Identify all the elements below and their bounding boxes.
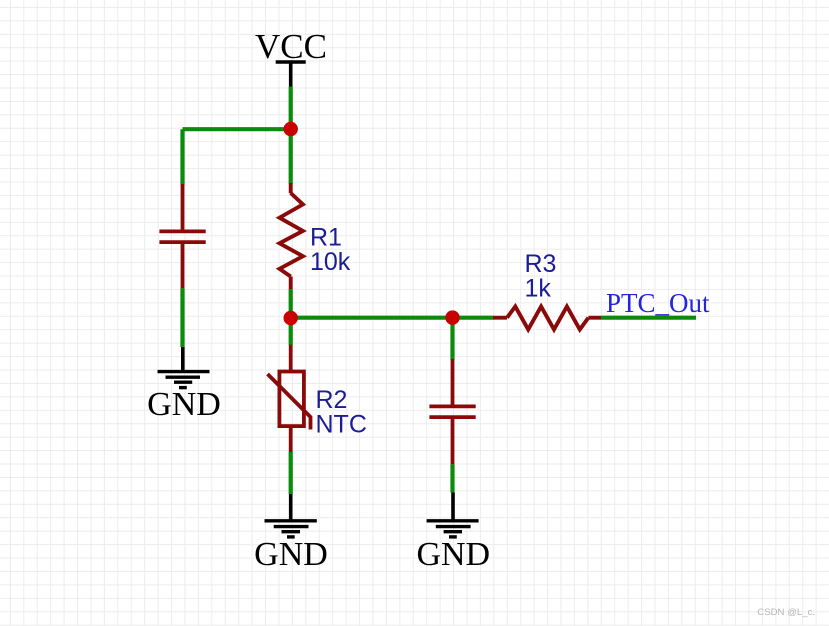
wire node A to left branch (horizontal) [183, 127, 291, 131]
resistor R3 [493, 307, 601, 330]
svg-text:GND: GND [147, 386, 221, 423]
wire R3 to net PTC_Out [601, 316, 696, 320]
svg-text:1k: 1k [525, 275, 552, 303]
wire node B to node C (horizontal) [291, 316, 453, 320]
power port VCC [276, 62, 306, 87]
svg-text:NTC: NTC [316, 410, 367, 438]
wire node C down to C2 [450, 318, 454, 360]
svg-text:VCC: VCC [255, 27, 327, 66]
svg-text:GND: GND [254, 536, 328, 573]
capacitor C2 [429, 359, 475, 464]
wire node B down to R2 [289, 318, 293, 345]
svg-text:GND: GND [416, 536, 490, 573]
wire C2 to GND right [450, 464, 454, 492]
junction node B [284, 311, 298, 325]
wire R2 to GND middle [289, 452, 293, 494]
ground symbol (middle) [265, 494, 317, 537]
svg-text:CSDN @L_c.: CSDN @L_c. [757, 607, 815, 618]
junction node C [445, 310, 459, 324]
svg-text:PTC_Out: PTC_Out [606, 288, 710, 318]
capacitor C1 [159, 184, 205, 288]
ground symbol (right) [427, 493, 479, 537]
wire node A down to R1 [289, 129, 293, 183]
wire left branch down to C1 [180, 129, 184, 184]
thermistor R2 [268, 345, 311, 452]
wire R1 to node B [289, 289, 293, 318]
wire node C to R3 [453, 316, 494, 320]
junction node A [284, 122, 298, 136]
ground symbol (left) [158, 347, 210, 388]
wire C1 to GND left [180, 288, 184, 347]
resistor R1 [280, 183, 303, 289]
svg-text:10k: 10k [310, 248, 351, 276]
wire VCC to node A [289, 87, 293, 130]
